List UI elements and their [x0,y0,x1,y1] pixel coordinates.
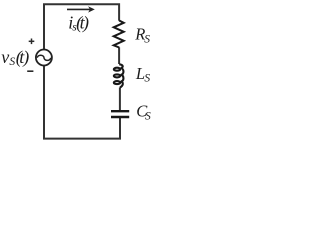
voltage source U1 AC circle [36,50,52,66]
capacitor C_S plates [111,111,129,117]
current arrow [67,6,95,12]
plus sign [29,39,35,45]
resistor R_S zigzag [114,21,124,48]
wire right leg between resistor and inductor [118,47,120,64]
wire bottom rail and lower legs [44,66,120,139]
svg-text:LS: LS [135,64,151,85]
svg-text:CS: CS [136,102,151,123]
svg-text:RS: RS [134,25,150,46]
wire top rail and top of left/right legs [44,4,119,49]
svg-text:is(t): is(t) [68,13,89,34]
svg-text:vS(t): vS(t) [1,47,29,68]
minus sign [27,70,33,72]
inductor L_S coil [114,64,124,87]
wire right leg between inductor and capacitor [119,88,121,111]
